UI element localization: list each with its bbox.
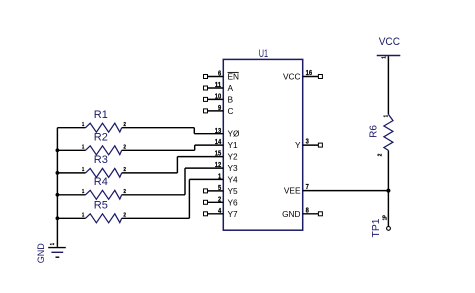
svg-text:2: 2	[123, 167, 126, 173]
svg-text:5: 5	[218, 183, 221, 192]
svg-text:16: 16	[306, 68, 313, 77]
svg-text:GND: GND	[282, 209, 300, 219]
svg-text:8: 8	[306, 205, 309, 214]
svg-text:2: 2	[378, 153, 384, 156]
svg-text:11: 11	[215, 80, 222, 89]
svg-text:U1: U1	[259, 48, 268, 60]
svg-text:B: B	[228, 94, 234, 104]
svg-text:EN: EN	[228, 72, 240, 82]
svg-text:1: 1	[381, 56, 387, 58]
svg-text:1: 1	[82, 144, 84, 150]
svg-text:7: 7	[306, 182, 309, 191]
svg-text:YØ: YØ	[228, 129, 241, 139]
svg-text:R3: R3	[94, 154, 108, 166]
svg-text:2: 2	[123, 144, 126, 150]
svg-text:10: 10	[215, 92, 222, 101]
svg-text:VEE: VEE	[284, 186, 301, 196]
svg-text:TP1: TP1	[371, 218, 382, 237]
svg-text:VCC: VCC	[283, 72, 301, 82]
svg-text:Y3: Y3	[228, 163, 239, 173]
svg-text:2: 2	[123, 212, 126, 218]
svg-text:1: 1	[82, 167, 84, 173]
svg-text:C: C	[228, 106, 234, 116]
svg-text:GND: GND	[36, 243, 47, 263]
svg-text:Y1: Y1	[228, 140, 239, 150]
svg-text:3: 3	[306, 137, 309, 146]
svg-text:1: 1	[82, 212, 84, 218]
svg-text:1P: 1P	[383, 215, 389, 221]
svg-text:2: 2	[123, 189, 126, 195]
svg-text:Y5: Y5	[228, 186, 239, 196]
svg-text:R6: R6	[368, 125, 379, 138]
svg-text:6: 6	[218, 69, 221, 78]
svg-text:2: 2	[218, 194, 221, 203]
svg-text:A: A	[228, 83, 234, 93]
svg-text:Y6: Y6	[228, 197, 239, 207]
svg-text:Y4: Y4	[228, 174, 239, 184]
svg-text:R2: R2	[94, 131, 108, 143]
svg-text:9: 9	[218, 103, 221, 112]
svg-text:Y7: Y7	[228, 209, 239, 219]
svg-text:VCC: VCC	[379, 36, 400, 48]
svg-text:1: 1	[383, 115, 389, 117]
svg-text:1: 1	[50, 243, 56, 245]
svg-text:Y2: Y2	[228, 152, 239, 162]
svg-text:2: 2	[123, 122, 126, 128]
svg-text:R4: R4	[94, 176, 108, 188]
svg-text:1: 1	[82, 122, 84, 128]
svg-text:R1: R1	[94, 109, 108, 121]
svg-text:R5: R5	[94, 199, 108, 211]
svg-text:Y: Y	[295, 140, 301, 150]
svg-text:1: 1	[82, 189, 84, 195]
